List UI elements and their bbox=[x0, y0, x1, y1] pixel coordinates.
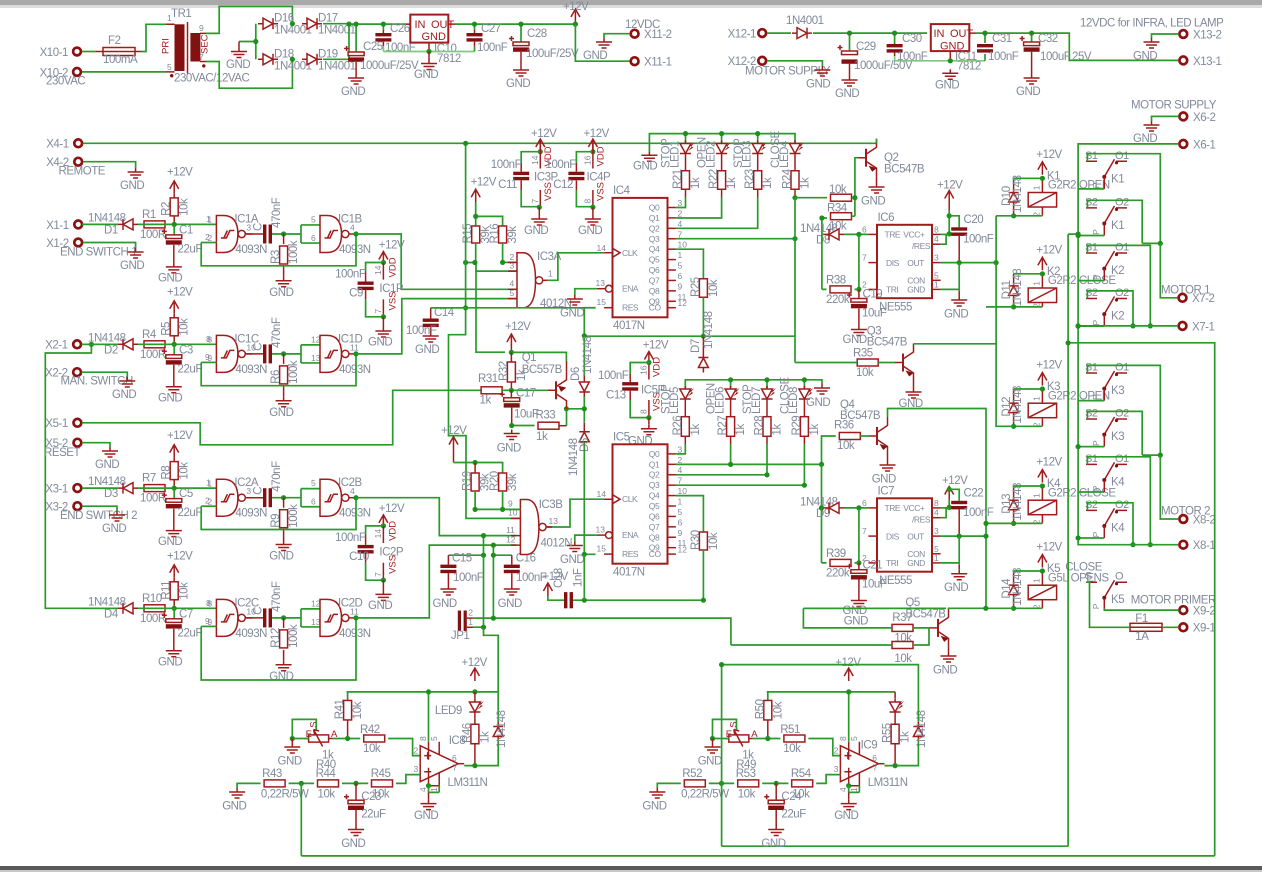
wire RES line IC4 bbox=[431, 307, 596, 309]
svg-text:+12V: +12V bbox=[937, 180, 963, 192]
resistor R35 10k bbox=[857, 359, 878, 366]
svg-text:220k: 220k bbox=[826, 568, 850, 580]
ground IC2P bbox=[382, 580, 384, 590]
resistor R46 1k bbox=[471, 724, 479, 744]
svg-text:LM311N: LM311N bbox=[868, 777, 908, 789]
svg-text:Q1: Q1 bbox=[649, 459, 660, 469]
svg-text:+12V: +12V bbox=[441, 425, 467, 437]
wire R43 gnd bbox=[237, 783, 261, 788]
svg-text:6: 6 bbox=[862, 224, 867, 234]
svg-text:10k: 10k bbox=[783, 743, 801, 755]
wire feedback loop bbox=[201, 618, 356, 680]
DC rail wire bbox=[349, 23, 406, 25]
svg-text:470nF: 470nF bbox=[271, 461, 283, 492]
svg-text:K2: K2 bbox=[1111, 311, 1124, 323]
svg-text:GND: GND bbox=[583, 50, 607, 62]
svg-text:LED5: LED5 bbox=[669, 387, 681, 414]
net +12V IC7 bbox=[945, 487, 954, 500]
wire pin8 to rail bbox=[428, 692, 430, 742]
wire feedback loop bbox=[201, 234, 356, 266]
wire X9-2 to contact bbox=[1104, 608, 1178, 610]
ground X11 bbox=[583, 38, 612, 62]
svg-text:+12V: +12V bbox=[1036, 149, 1062, 161]
svg-text:R20: R20 bbox=[489, 471, 501, 491]
svg-text:VCC+: VCC+ bbox=[903, 503, 925, 513]
svg-text:IC4P: IC4P bbox=[587, 171, 612, 183]
wire R37 right to base bbox=[913, 628, 930, 645]
svg-text:X8-2: X8-2 bbox=[1193, 514, 1216, 526]
svg-text:5: 5 bbox=[678, 261, 683, 271]
svg-text:C18: C18 bbox=[553, 568, 565, 588]
diode D17 bbox=[302, 13, 356, 37]
svg-text:GND: GND bbox=[872, 474, 896, 486]
svg-text:GND: GND bbox=[269, 671, 293, 683]
svg-text:GND: GND bbox=[95, 459, 119, 471]
svg-text:8: 8 bbox=[934, 498, 939, 508]
capacitor C20 100nF bbox=[949, 216, 959, 228]
wire cap to R junction bbox=[272, 617, 301, 619]
capacitor C16 100nF bbox=[493, 554, 511, 556]
wire REMOTE X4-1 long bbox=[83, 142, 876, 144]
LED LED1 bbox=[680, 141, 695, 157]
LED IC8 bbox=[469, 699, 484, 715]
wire X9-1 to F1 to contact S bbox=[1086, 582, 1179, 627]
diode D12 bbox=[1009, 389, 1019, 426]
resistor R42 10k bbox=[333, 738, 361, 740]
svg-text:OUT: OUT bbox=[950, 28, 974, 40]
wire X12-1 to diode bbox=[767, 32, 791, 34]
svg-text:GND: GND bbox=[497, 443, 521, 455]
wire TR1 pin9 to bridge top bbox=[206, 6, 292, 33]
ground IC6 out column bbox=[958, 291, 960, 296]
wire /RES IC7 bbox=[941, 507, 947, 517]
svg-text:GND: GND bbox=[158, 536, 182, 548]
svg-text:Q2: Q2 bbox=[884, 152, 898, 164]
net +12V R15 bbox=[471, 189, 480, 202]
wire IC1D out to IC3A pin5 bbox=[356, 299, 517, 354]
svg-text:8: 8 bbox=[418, 736, 428, 741]
svg-text:Q7: Q7 bbox=[649, 275, 660, 285]
nand gate ('IC1A', 'IC1B')A bbox=[216, 216, 252, 253]
svg-text:TRI: TRI bbox=[886, 285, 898, 295]
svg-text:4093N: 4093N bbox=[339, 364, 371, 376]
wire K5 drive bbox=[986, 607, 1014, 609]
resistor R29 1k bbox=[800, 417, 808, 437]
svg-text:GND: GND bbox=[1016, 86, 1040, 98]
+12V K5 bbox=[1038, 555, 1047, 568]
svg-text:14: 14 bbox=[530, 155, 540, 165]
resistor R9 100k bbox=[283, 498, 285, 508]
wire X2-2 gnd bbox=[82, 372, 128, 377]
net +12V IC8 bbox=[470, 668, 479, 681]
wire Q1row to R34 bbox=[852, 215, 855, 217]
svg-text:Q2: Q2 bbox=[649, 470, 660, 480]
wire rail1 LED2 bbox=[721, 134, 723, 144]
wire R22 to Q1 bbox=[676, 197, 722, 218]
svg-text:GND: GND bbox=[158, 392, 182, 404]
transistor Q5 BC547B bbox=[930, 609, 949, 647]
4012N gate IC3A bbox=[517, 253, 549, 308]
relay coil K1 bbox=[1028, 193, 1056, 208]
capacitor C10 100nF bbox=[366, 526, 384, 535]
resistor R4 100R bbox=[144, 341, 165, 348]
svg-text:9: 9 bbox=[678, 528, 683, 538]
svg-text:3: 3 bbox=[934, 253, 939, 263]
wire R52 gnd bbox=[657, 783, 681, 788]
svg-text:LED6: LED6 bbox=[714, 387, 726, 414]
relay contact K1 S2 bbox=[1086, 207, 1127, 209]
svg-text:100nF: 100nF bbox=[406, 325, 437, 337]
svg-text:CLK: CLK bbox=[622, 248, 638, 258]
svg-text:CLOSE: CLOSE bbox=[1065, 561, 1103, 573]
svg-text:LED2: LED2 bbox=[705, 141, 717, 168]
svg-text:14: 14 bbox=[373, 529, 383, 539]
wire R34 left bbox=[822, 216, 827, 234]
trimmer R40 1k bbox=[305, 730, 333, 747]
svg-text:6: 6 bbox=[862, 498, 867, 508]
wire gateB inputs bbox=[301, 609, 320, 627]
svg-text:1N4148: 1N4148 bbox=[88, 596, 126, 608]
wire R29 to Q3 bbox=[803, 444, 805, 485]
svg-text:R41: R41 bbox=[334, 699, 346, 719]
net +12V IC5P bbox=[644, 352, 653, 365]
svg-text:VSS: VSS bbox=[596, 182, 607, 201]
svg-text:1: 1 bbox=[207, 215, 212, 225]
wire fuse to TR1 pin1 bbox=[141, 24, 166, 51]
svg-text:LED9: LED9 bbox=[435, 705, 462, 717]
svg-text:X13-2: X13-2 bbox=[1193, 30, 1221, 42]
LED LED5 bbox=[680, 386, 695, 402]
ground IC10 bbox=[414, 52, 438, 82]
wire R54 to in- bbox=[816, 775, 840, 784]
svg-text:+12V: +12V bbox=[584, 128, 610, 140]
svg-text:LED4: LED4 bbox=[779, 140, 791, 168]
wire Q5 collector bbox=[949, 607, 986, 610]
vertical R24 column bbox=[794, 198, 796, 363]
bridge mid junctions bbox=[290, 21, 295, 26]
wire common K47 bbox=[1078, 537, 1104, 539]
svg-text:R25: R25 bbox=[690, 277, 702, 297]
resistor R37 10k bbox=[892, 624, 913, 631]
wire RES stub left bbox=[584, 307, 595, 309]
wire R21 to Q0 bbox=[676, 197, 686, 208]
svg-text:9: 9 bbox=[508, 499, 513, 509]
svg-text:GND: GND bbox=[806, 397, 830, 409]
wire X2-1 branch to D4 rail bbox=[45, 344, 118, 608]
svg-text:IC7: IC7 bbox=[878, 485, 895, 497]
svg-text:Q6: Q6 bbox=[649, 511, 660, 521]
svg-text:Q8: Q8 bbox=[649, 286, 660, 296]
svg-text:GND: GND bbox=[628, 436, 652, 448]
svg-text:S: S bbox=[729, 721, 740, 727]
svg-text:4: 4 bbox=[838, 787, 848, 792]
svg-text:11: 11 bbox=[506, 525, 515, 535]
wire +12V rail R19 R20 bbox=[454, 463, 503, 474]
svg-text:1k: 1k bbox=[900, 731, 912, 743]
svg-text:3: 3 bbox=[934, 526, 939, 536]
wire TRE to TRI vertical bbox=[858, 234, 860, 289]
connector pad X6-1 bbox=[1179, 139, 1215, 151]
svg-text:9: 9 bbox=[205, 352, 210, 362]
svg-text:C17: C17 bbox=[516, 387, 536, 399]
svg-text:100nF: 100nF bbox=[453, 572, 484, 584]
svg-text:12: 12 bbox=[506, 534, 516, 544]
svg-text:R31: R31 bbox=[478, 373, 498, 385]
wire gateB inputs bbox=[301, 345, 320, 363]
svg-text:X5-1: X5-1 bbox=[45, 418, 68, 430]
svg-text:+12V: +12V bbox=[462, 657, 488, 669]
resistor R50 10k bbox=[767, 692, 769, 701]
svg-text:GND: GND bbox=[944, 582, 968, 594]
wire gate pin2 bbox=[201, 242, 216, 244]
svg-text:R45: R45 bbox=[371, 768, 391, 780]
connector pad X2-1 bbox=[73, 340, 81, 348]
svg-text:GND: GND bbox=[422, 31, 447, 43]
wire OUT to gnd column bbox=[941, 262, 997, 264]
resistor R51 10k bbox=[753, 738, 781, 740]
svg-text:OUT: OUT bbox=[907, 531, 924, 541]
resistor R31 1k bbox=[481, 387, 502, 394]
ground trimmer bbox=[291, 739, 293, 744]
resistor R37b 10k bbox=[892, 642, 913, 649]
svg-text:4: 4 bbox=[678, 219, 683, 229]
wire +12V rail to X11-1 bbox=[575, 24, 630, 61]
svg-text:SEC: SEC bbox=[200, 34, 211, 54]
svg-text:X3-1: X3-1 bbox=[45, 484, 68, 496]
wire +12V tap to Q1 bbox=[476, 271, 505, 352]
svg-text:Q4: Q4 bbox=[649, 491, 660, 501]
svg-text:C14: C14 bbox=[434, 307, 455, 319]
svg-text:GND: GND bbox=[368, 337, 392, 349]
ground ENA IC5 bbox=[575, 535, 597, 541]
svg-text:GND: GND bbox=[834, 810, 858, 822]
svg-text:R7: R7 bbox=[142, 473, 156, 485]
wire R19 R20 bottom to pin9 bbox=[475, 491, 520, 509]
svg-text:X9-1: X9-1 bbox=[1193, 623, 1216, 635]
svg-text:BC547B: BC547B bbox=[840, 410, 881, 422]
svg-text:C25: C25 bbox=[363, 41, 383, 53]
svg-text:GND: GND bbox=[278, 756, 302, 768]
wire trimmer loop bbox=[292, 719, 316, 738]
svg-text:11: 11 bbox=[350, 342, 359, 352]
resistor R25 10k bbox=[699, 279, 707, 298]
svg-text:5: 5 bbox=[311, 478, 316, 488]
wire C18 to RES net bbox=[573, 599, 703, 601]
resistor R6 100k bbox=[283, 354, 285, 364]
svg-text:RES: RES bbox=[622, 303, 639, 313]
svg-text:1N4148: 1N4148 bbox=[1012, 568, 1024, 606]
wire D8 left bbox=[822, 234, 824, 289]
svg-text:X9-2: X9-2 bbox=[1193, 606, 1216, 618]
svg-text:10k: 10k bbox=[372, 789, 390, 801]
svg-text:IN: IN bbox=[934, 28, 945, 40]
resistor R34 10k bbox=[831, 213, 852, 220]
svg-text:K1: K1 bbox=[1111, 173, 1124, 185]
svg-text:GND: GND bbox=[226, 59, 250, 71]
wire Q4 emitter gnd bbox=[887, 455, 889, 461]
resistor R12 100k bbox=[283, 618, 285, 628]
wire K4 drive bbox=[986, 522, 1014, 524]
svg-text:1: 1 bbox=[934, 553, 939, 563]
svg-text:100nF: 100nF bbox=[598, 370, 629, 382]
svg-text:GND: GND bbox=[433, 598, 457, 610]
svg-text:1000uF/25V: 1000uF/25V bbox=[360, 60, 419, 72]
wire OUT rail bbox=[455, 23, 575, 25]
+12V K3 bbox=[1038, 373, 1047, 386]
svg-text:14: 14 bbox=[373, 265, 383, 275]
svg-text:K1: K1 bbox=[1111, 220, 1124, 232]
svg-text:C13: C13 bbox=[606, 390, 626, 402]
transistor Q2 BC547B bbox=[858, 139, 877, 177]
svg-text:Q5: Q5 bbox=[649, 501, 660, 511]
svg-text:R38: R38 bbox=[826, 275, 846, 287]
wire X8-1 bbox=[1078, 539, 1178, 545]
svg-text:1k: 1k bbox=[809, 424, 821, 436]
svg-text:P: P bbox=[1091, 182, 1101, 188]
svg-text:X2-1: X2-1 bbox=[45, 340, 68, 352]
svg-text:2: 2 bbox=[678, 455, 683, 465]
capacitor C5 22uF bbox=[173, 488, 175, 498]
capacitor C1 22uF bbox=[173, 224, 175, 234]
svg-text:R29: R29 bbox=[791, 416, 803, 436]
svg-text:4093N: 4093N bbox=[235, 508, 267, 520]
wire relay row bbox=[1014, 306, 1043, 308]
svg-text:R21: R21 bbox=[672, 169, 684, 189]
svg-text:+12V: +12V bbox=[643, 340, 669, 352]
svg-text:D4: D4 bbox=[104, 608, 119, 620]
capacitor C22 100nF bbox=[949, 489, 959, 501]
svg-text:VDD: VDD bbox=[596, 146, 607, 166]
svg-text:1N4148: 1N4148 bbox=[582, 336, 594, 374]
resistor R27 1k bbox=[727, 417, 735, 437]
svg-text:3: 3 bbox=[246, 223, 251, 233]
capacitor C19 10uF bbox=[858, 289, 860, 298]
resistor R53 10k bbox=[738, 780, 759, 787]
ground X1-2 bbox=[128, 248, 144, 258]
svg-text:GND: GND bbox=[524, 225, 548, 237]
connector pad X2-2 bbox=[73, 368, 81, 376]
wire Q1 emitter rail bbox=[511, 352, 566, 361]
wire X5-1 reset line bbox=[82, 390, 481, 445]
wire Q4 to R25 bbox=[676, 249, 704, 279]
svg-text:Q3: Q3 bbox=[649, 480, 660, 490]
wire contact hats motor1 bbox=[1087, 154, 1160, 244]
wire common K11 bbox=[1078, 235, 1104, 237]
resistor R5 10k bbox=[170, 318, 178, 336]
ground X4-2 bbox=[128, 168, 144, 178]
wire rail2 LED8 bbox=[803, 380, 805, 388]
svg-text:GND: GND bbox=[415, 344, 439, 356]
svg-text:1: 1 bbox=[167, 13, 172, 23]
svg-text:R16: R16 bbox=[489, 224, 501, 244]
wire common K22 bbox=[1078, 280, 1104, 282]
connector pad X10-2 bbox=[40, 68, 81, 80]
ground ENA IC4 bbox=[575, 289, 597, 295]
svg-text:1: 1 bbox=[207, 478, 212, 488]
resistor R39 220k bbox=[830, 559, 851, 566]
svg-text:C1: C1 bbox=[179, 224, 193, 236]
wire relay rail bbox=[1014, 485, 1043, 487]
svg-text:VDD: VDD bbox=[652, 357, 663, 377]
svg-text:39k: 39k bbox=[507, 473, 519, 491]
svg-text:C27: C27 bbox=[481, 23, 501, 35]
wire X6-2 to gnd bbox=[1152, 116, 1179, 121]
svg-text:100k: 100k bbox=[288, 360, 300, 384]
svg-text:R28: R28 bbox=[754, 416, 766, 436]
resistor R1 100R bbox=[144, 221, 165, 228]
wire R35 left bbox=[795, 362, 857, 364]
svg-text:1k: 1k bbox=[772, 424, 784, 436]
svg-text:X1-1: X1-1 bbox=[46, 220, 69, 232]
svg-text:10k: 10k bbox=[352, 701, 364, 719]
wire Q3 row bbox=[676, 238, 795, 240]
wire gate pin2 bbox=[201, 505, 216, 507]
svg-text:LED3: LED3 bbox=[742, 141, 754, 168]
svg-text:RES: RES bbox=[622, 549, 639, 559]
svg-text:+12V: +12V bbox=[471, 177, 497, 189]
svg-text:22uF: 22uF bbox=[781, 809, 806, 821]
svg-text:GND: GND bbox=[843, 334, 867, 346]
relay contact K1 S1 bbox=[1086, 160, 1127, 162]
wire OUT rail right bbox=[976, 33, 1178, 60]
resistor R55 1k bbox=[891, 724, 899, 744]
svg-text:C3: C3 bbox=[179, 344, 193, 356]
svg-text:1N4001: 1N4001 bbox=[274, 25, 312, 37]
diode D7 1N4148 bbox=[698, 336, 708, 372]
svg-text:END SWITCH 2: END SWITCH 2 bbox=[60, 510, 137, 522]
diode D10 bbox=[1009, 178, 1019, 216]
svg-text:8: 8 bbox=[207, 335, 212, 345]
svg-text:IC1P: IC1P bbox=[379, 283, 404, 295]
svg-text:100nF: 100nF bbox=[546, 159, 577, 171]
+12V symbol bbox=[563, 1, 589, 27]
ground X12-2 bbox=[806, 66, 830, 91]
nand gate ('IC1C', 'IC1D')B bbox=[320, 335, 356, 372]
svg-text:100mA: 100mA bbox=[103, 54, 138, 66]
svg-text:Q0: Q0 bbox=[649, 449, 660, 459]
wire to C23 bbox=[342, 782, 368, 784]
svg-text:GND: GND bbox=[368, 600, 392, 612]
svg-text:100nF: 100nF bbox=[335, 269, 366, 281]
svg-text:C21: C21 bbox=[863, 560, 883, 572]
connector pad X10-1 bbox=[40, 47, 81, 59]
LED LED7 bbox=[762, 386, 777, 402]
wire Q1 emitter bbox=[566, 361, 568, 371]
capacitor C13 bbox=[630, 363, 649, 375]
wire X3-2 gnd bbox=[82, 506, 117, 511]
connector pad X4-1 bbox=[74, 139, 82, 147]
wire feedback loop bbox=[201, 354, 356, 386]
wire R27 to Q1 bbox=[730, 444, 732, 464]
svg-text:IC3B: IC3B bbox=[539, 499, 564, 511]
wire TRE TRI vertical IC7 bbox=[858, 508, 860, 563]
wire IC3B out to IC5 CLK bbox=[547, 499, 604, 527]
svg-text:5: 5 bbox=[167, 62, 172, 72]
svg-text:13: 13 bbox=[549, 516, 559, 526]
svg-text:TRE: TRE bbox=[885, 503, 901, 513]
svg-text:X13-1: X13-1 bbox=[1193, 56, 1221, 68]
connector pad X3-1 bbox=[74, 484, 82, 492]
svg-text:X7-1: X7-1 bbox=[1192, 321, 1215, 333]
svg-text:O2: O2 bbox=[1115, 499, 1129, 511]
wire X10-1 to fuse bbox=[82, 51, 96, 53]
svg-text:470nF: 470nF bbox=[271, 197, 283, 228]
svg-text:K3: K3 bbox=[1111, 431, 1124, 443]
svg-text:JP1: JP1 bbox=[451, 630, 470, 642]
wire JP1 pin1 bbox=[474, 627, 498, 722]
svg-text:R24: R24 bbox=[782, 168, 794, 189]
svg-text:100k: 100k bbox=[288, 624, 300, 648]
